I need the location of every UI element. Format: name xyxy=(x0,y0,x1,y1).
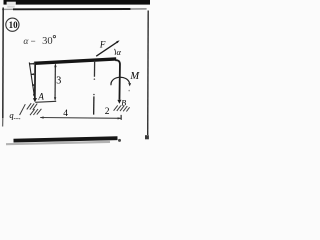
bottom dimension line (A side) xyxy=(35,101,56,102)
scan smudge under top band xyxy=(7,6,15,8)
dimension line 3 (vertical) xyxy=(54,66,56,99)
scan edge left line xyxy=(2,8,4,119)
svg-text:q: q xyxy=(9,110,14,120)
svg-text:4: 4 xyxy=(63,109,68,119)
moment M arc xyxy=(111,77,130,85)
angle arc at F xyxy=(115,49,116,55)
right column with rounded corner xyxy=(115,60,120,100)
extension stub at B end of dimension line xyxy=(120,115,122,120)
left column xyxy=(34,62,36,99)
scan rule top line xyxy=(2,8,14,10)
scan speck near M xyxy=(128,90,130,92)
scan bottom band xyxy=(14,138,118,140)
dimension line 4+2 (bottom) xyxy=(40,117,121,120)
svg-text:3: 3 xyxy=(56,75,61,86)
scan edge top band xyxy=(4,0,151,5)
svg-text:F: F xyxy=(99,40,106,50)
paper background xyxy=(0,0,150,150)
support hatching at B xyxy=(114,105,130,111)
svg-text:30: 30 xyxy=(42,36,53,47)
distributed load arrow 2 xyxy=(31,73,34,75)
svg-text:2: 2 xyxy=(105,107,110,117)
force F line xyxy=(96,42,117,56)
problem number circle 10 xyxy=(6,18,19,31)
svg-text:M: M xyxy=(129,71,140,82)
arrowhead at A xyxy=(33,98,37,102)
dimension divider tick upper xyxy=(93,61,95,77)
svg-text:α: α xyxy=(117,47,122,57)
arrowhead at B xyxy=(117,100,121,104)
support hatching at A xyxy=(27,103,42,115)
beam (top horizontal member) xyxy=(34,59,116,63)
distributed load arrow 1 xyxy=(29,63,33,65)
svg-text:10: 10 xyxy=(9,20,19,30)
leader line from q max to load xyxy=(20,104,26,115)
dimension divider tick lower xyxy=(93,94,95,96)
distributed load slant edge xyxy=(29,62,35,99)
svg-text:A: A xyxy=(37,92,44,102)
scan edge right line xyxy=(147,11,150,136)
distributed load arrow 4 xyxy=(32,94,35,96)
distributed load arrow 3 xyxy=(32,84,33,86)
